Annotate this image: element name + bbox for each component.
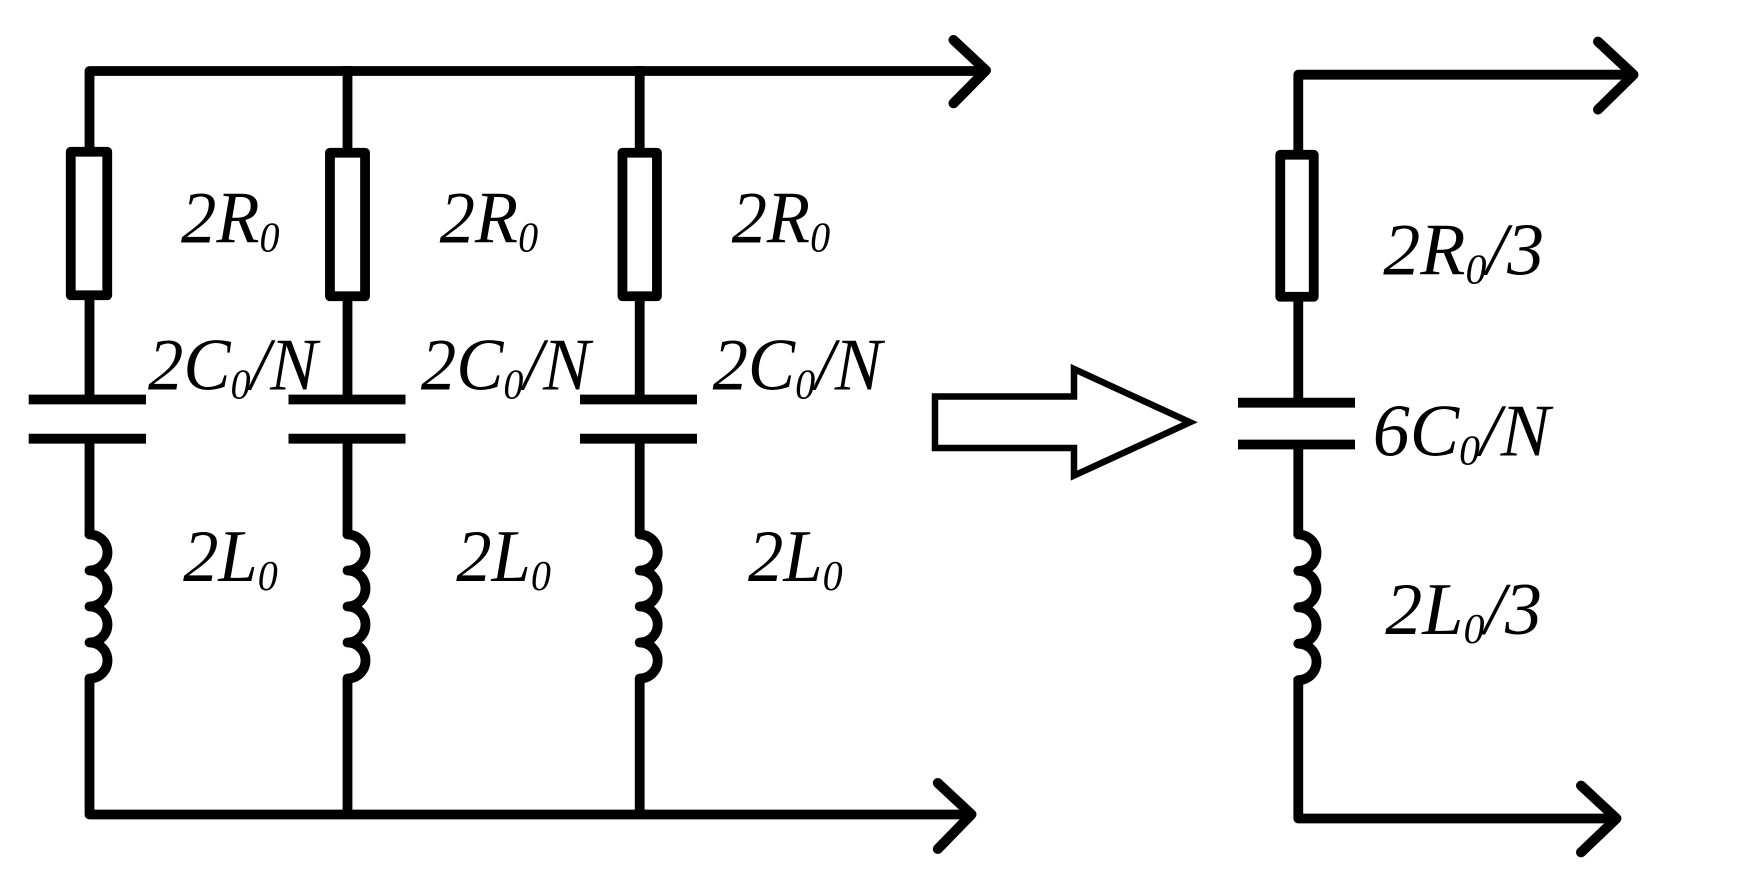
wire inductor to bottom bus right and bottom wire bbox=[1298, 678, 1615, 819]
wire branch 1 inductor to bottom bus and bottom bus bbox=[90, 678, 972, 815]
resistor 2R0/3 bbox=[1280, 155, 1314, 297]
capacitor 2C0/N branch 2 top plate bbox=[289, 395, 406, 405]
inductor 2L0/3 bbox=[1298, 535, 1316, 681]
resistor 2R0 branch 3 bbox=[622, 153, 657, 297]
capacitor 2C0/N branch 1 top plate bbox=[29, 395, 146, 405]
wire branch 3 resistor to capacitor bbox=[635, 296, 645, 400]
inductor 2L0 branch 1 bbox=[90, 535, 108, 679]
wire branch 2 inductor to bottom bus bbox=[343, 678, 353, 819]
wire branch 3 top drop bbox=[635, 66, 645, 152]
wire resistor to capacitor right bbox=[1293, 296, 1303, 403]
svg-text:2R0/3: 2R0/3 bbox=[1383, 210, 1544, 294]
capacitor 2C0/N branch 3 top plate bbox=[580, 395, 697, 405]
inductor 2L0 branch 3 bbox=[640, 535, 658, 679]
arrowhead top right bbox=[1598, 42, 1634, 110]
wire branch 2 top drop bbox=[343, 66, 353, 152]
big hollow implication arrow bbox=[935, 369, 1190, 476]
arrowhead bottom right bbox=[1581, 786, 1617, 853]
wire branch 3 capacitor to inductor bbox=[635, 439, 645, 536]
capacitor 6C0/N top plate bbox=[1238, 398, 1355, 408]
arrowhead bottom left bus bbox=[938, 783, 972, 849]
wire capacitor to inductor right bbox=[1293, 445, 1303, 537]
capacitor 2C0/N branch 2 bottom plate bbox=[289, 434, 406, 444]
wire branch 3 inductor to bottom bus bbox=[635, 678, 645, 819]
wire top right circuit with branch drop bbox=[1298, 75, 1630, 155]
resistor 2R0 branch 2 bbox=[330, 153, 365, 297]
wire branch 2 capacitor to inductor bbox=[343, 439, 353, 536]
wire branch 1 capacitor to inductor bbox=[85, 439, 95, 536]
wire top bus left circuit with branch 1 drop bbox=[90, 71, 985, 152]
arrowhead top left bus bbox=[954, 40, 987, 103]
capacitor 6C0/N bottom plate bbox=[1238, 440, 1355, 450]
capacitor 2C0/N branch 3 bottom plate bbox=[580, 434, 697, 444]
capacitor 2C0/N branch 1 bottom plate bbox=[29, 434, 146, 444]
inductor 2L0 branch 2 bbox=[348, 535, 366, 679]
wire branch 1 resistor to capacitor bbox=[85, 295, 95, 400]
resistor 2R0 branch 1 bbox=[71, 152, 108, 296]
wire branch 2 resistor to capacitor bbox=[343, 296, 353, 400]
